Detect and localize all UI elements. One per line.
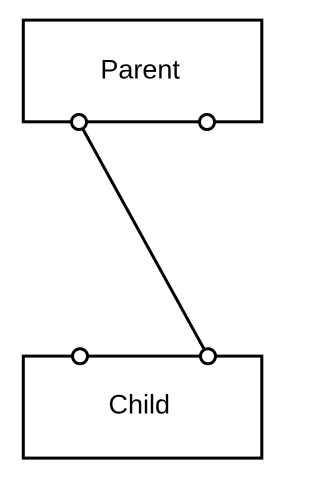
port: Child top-right connection point bbox=[201, 349, 216, 364]
node Child: entity box bbox=[23, 356, 261, 458]
wire: diagonal connector from Parent left port to Child right port bbox=[79, 122, 208, 356]
node Parent: entity box bbox=[23, 20, 261, 122]
port: Child top-left connection point bbox=[73, 349, 88, 364]
svg-text:Child: Child bbox=[109, 390, 171, 420]
port: Parent bottom-right connection point bbox=[200, 115, 215, 130]
svg-text:Parent: Parent bbox=[100, 55, 180, 85]
port: Parent bottom-left connection point bbox=[72, 115, 87, 130]
